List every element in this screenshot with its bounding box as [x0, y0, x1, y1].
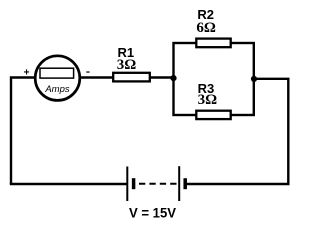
svg-text:+: + [24, 67, 30, 78]
wire left vertical + top-left horizontal to ammeter [11, 78, 35, 185]
wire bottom-left to battery [10, 183, 127, 185]
wire battery to bottom-right corner, right vertical, top stub to node B [187, 79, 289, 184]
svg-text:6Ω: 6Ω [196, 20, 216, 36]
node - label: minus terminal of ammeter [86, 71, 89, 73]
battery V1 left cell short plate [132, 178, 136, 189]
svg-text:3Ω: 3Ω [117, 57, 137, 73]
resistor R2 [196, 39, 230, 48]
resistor R3 [196, 111, 230, 119]
resistor R1 [113, 73, 150, 82]
svg-text:Amps: Amps [44, 84, 70, 95]
svg-text:V = 15V: V = 15V [129, 205, 176, 221]
battery V1 right cell short plate [183, 178, 187, 189]
node B junction dot [251, 76, 257, 82]
wire R1 to node A [150, 76, 174, 79]
battery V1 right cell long plate [178, 166, 180, 201]
wire ammeter to R1 [80, 76, 114, 79]
node A junction dot [170, 75, 176, 81]
battery V1 left cell long plate [126, 167, 128, 202]
parallel branch loop wires [174, 43, 254, 115]
svg-text:3Ω: 3Ω [198, 92, 218, 108]
battery dashed link [139, 183, 177, 185]
ammeter U1 (Amps) [35, 56, 80, 101]
